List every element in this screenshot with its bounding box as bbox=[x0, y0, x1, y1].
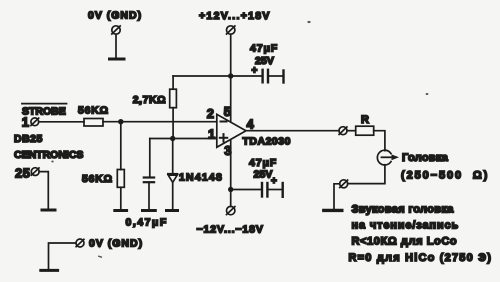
svg-text:25V: 25V bbox=[254, 169, 273, 181]
wire bbox=[173, 75, 261, 77]
wire node B to opamp pin1 bbox=[150, 138, 217, 140]
terminal -12V bbox=[227, 206, 235, 214]
svg-text:+: + bbox=[252, 66, 258, 77]
svg-text:1: 1 bbox=[22, 114, 29, 129]
ground bbox=[110, 58, 125, 61]
resistor R bbox=[356, 126, 374, 135]
wire bbox=[334, 184, 340, 209]
resistor R3 2.7K bbox=[170, 76, 177, 139]
svg-text:2: 2 bbox=[207, 106, 214, 121]
svg-text:56KΩ: 56KΩ bbox=[78, 105, 109, 117]
ground bbox=[143, 209, 156, 212]
svg-text:47μF: 47μF bbox=[250, 43, 278, 55]
svg-text:R: R bbox=[361, 114, 369, 126]
svg-text:Головка: Головка bbox=[402, 152, 449, 164]
wire bbox=[39, 121, 84, 123]
ground bbox=[324, 209, 342, 212]
wire bbox=[347, 130, 356, 132]
svg-text:5: 5 bbox=[224, 104, 231, 119]
terminal pin1 strobe bbox=[31, 118, 39, 126]
terminal head low bbox=[340, 180, 348, 188]
svg-text:25: 25 bbox=[15, 166, 30, 181]
capacitor C3 0.47uF bbox=[144, 139, 154, 210]
node junction A bbox=[118, 119, 123, 124]
op-amp U1 TDA2030 bbox=[217, 114, 246, 147]
svg-text:+: + bbox=[271, 176, 277, 187]
terminal 0V top bbox=[112, 26, 120, 34]
svg-text:0,47μF: 0,47μF bbox=[126, 217, 168, 229]
ground bbox=[41, 269, 58, 272]
resistor R1 56K bbox=[84, 119, 103, 127]
svg-text:(250−500 Ω): (250−500 Ω) bbox=[401, 170, 489, 182]
svg-text:2,7KΩ: 2,7KΩ bbox=[133, 94, 166, 106]
wire bbox=[115, 34, 117, 58]
terminal pin25 bbox=[31, 168, 39, 176]
wire node A to opamp pin2 bbox=[103, 121, 217, 123]
terminal +12V bbox=[227, 26, 235, 34]
svg-text:1: 1 bbox=[208, 126, 215, 141]
resistor R2 56K bbox=[117, 122, 124, 210]
label minus input bbox=[221, 121, 227, 123]
svg-text:1N4148: 1N4148 bbox=[179, 172, 223, 184]
label STROBE bbox=[22, 104, 67, 118]
head connector circle bbox=[377, 150, 391, 165]
arrow bbox=[382, 154, 400, 160]
wire pin3 to -12V bbox=[230, 140, 232, 206]
svg-text:0V (GND): 0V (GND) bbox=[89, 238, 143, 250]
capacitor C1 47uF 25V bbox=[263, 70, 284, 83]
wire opamp output bbox=[246, 130, 339, 132]
capacitor C2 47uF 25V bbox=[262, 183, 283, 197]
wire bbox=[231, 189, 261, 191]
wire bbox=[374, 131, 385, 151]
svg-text:Звуковая головка: Звуковая головка bbox=[352, 204, 455, 216]
svg-text:0V (GND): 0V (GND) bbox=[88, 10, 142, 22]
svg-text:+12V...+18V: +12V...+18V bbox=[199, 10, 271, 22]
terminal 0V bottom bbox=[76, 239, 84, 247]
svg-text:47μF: 47μF bbox=[249, 157, 277, 169]
terminal output bbox=[339, 127, 347, 135]
svg-text:DB25: DB25 bbox=[14, 133, 43, 145]
ground bbox=[167, 209, 178, 212]
svg-text:на чтение/запись: на чтение/запись bbox=[352, 220, 460, 232]
label plus input bbox=[220, 134, 227, 141]
diode D1 1N4148 bbox=[168, 139, 177, 210]
svg-text:R<10КΩ для LoCo: R<10КΩ для LoCo bbox=[352, 236, 458, 248]
node junction B bbox=[170, 136, 175, 141]
svg-text:TDA2030: TDA2030 bbox=[243, 136, 291, 148]
svg-text:−12V...−18V: −12V...−18V bbox=[197, 224, 264, 236]
svg-text:56KΩ: 56KΩ bbox=[82, 173, 113, 185]
wire bbox=[230, 34, 232, 121]
svg-text:25V: 25V bbox=[255, 55, 274, 67]
wire bbox=[39, 172, 48, 209]
node junction top rail bbox=[228, 73, 233, 78]
wire bbox=[348, 165, 385, 184]
node junction bottom bbox=[228, 187, 233, 192]
ground bbox=[115, 209, 127, 212]
ground bbox=[42, 209, 55, 212]
svg-text:R=0 для HiCo (2750 Э): R=0 для HiCo (2750 Э) bbox=[349, 252, 493, 264]
wire bbox=[49, 243, 77, 269]
svg-text:4: 4 bbox=[247, 117, 255, 132]
svg-text:CENTRONICS: CENTRONICS bbox=[14, 149, 83, 161]
